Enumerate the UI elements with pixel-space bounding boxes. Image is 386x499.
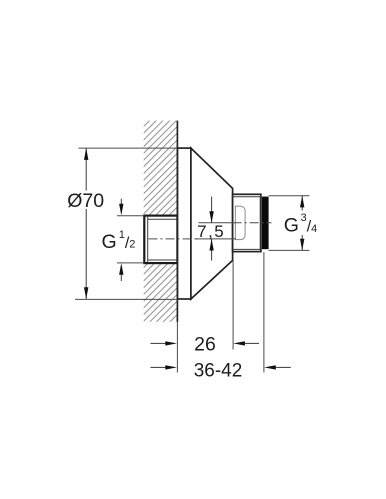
dim 7,5 label: [197, 224, 225, 238]
dim O70 line and arrows: [85, 148, 87, 299]
bottom extension line from cone edge: [232, 261, 234, 350]
dim G1/2 extension top: [117, 215, 144, 217]
dim 7,5 upper arrow: [211, 197, 213, 223]
dim G3/4 extension bottom: [269, 249, 310, 251]
svg-text:G1/2: G1/2: [102, 229, 136, 253]
dim 26 right arrow: [245, 342, 259, 344]
dim O70 extension bottom: [75, 298, 177, 300]
bottom extension line from gasket: [263, 252, 265, 372]
cone body: [191, 148, 233, 299]
wall (hatched): [144, 121, 178, 322]
gasket (black ring): [262, 197, 269, 250]
inner recess (rounded): [235, 206, 245, 239]
svg-text:Ø70: Ø70: [67, 190, 104, 212]
dim 36-42 left arrow: [151, 366, 166, 368]
groove line before gasket: [259, 196, 261, 250]
centerline G1/2 axis: [149, 238, 198, 240]
dim O70 label: [66, 191, 106, 210]
svg-text:36-42: 36-42: [194, 360, 243, 381]
svg-text:7,5: 7,5: [197, 222, 225, 241]
connector inner thread lines: [147, 217, 149, 263]
dim O70 extension top: [79, 147, 178, 149]
centerline G3/4 axis: [233, 222, 272, 224]
dim G1/2 upper arrow: [120, 199, 122, 206]
svg-text:26: 26: [194, 334, 216, 356]
escutcheon plate (edge view): [177, 148, 191, 299]
dim G1/2 extension bottom: [117, 262, 144, 264]
outlet cylinder: [233, 194, 261, 251]
dim G3/4 label: [283, 211, 309, 232]
bottom extension line from wall surface: [176, 322, 178, 373]
wall surface line: [176, 121, 178, 322]
dim G1/2 lower arrow: [120, 275, 122, 282]
dim 7,5 lower arrow: [211, 239, 213, 261]
7,5 lower extension (solid): [195, 238, 236, 240]
dim G3/4 extension top: [269, 195, 310, 197]
dim G3/4 upper arrow: [301, 196, 303, 211]
dim 26 left arrow: [151, 342, 166, 344]
7,5 upper extension (solid): [199, 222, 233, 224]
dim G3/4 lower arrow: [301, 235, 303, 250]
dim 36-42 right arrow: [276, 366, 291, 368]
cylinder inner thread lines: [233, 196, 261, 198]
G 1/2 connector body (in-wall nipple): [144, 216, 177, 264]
